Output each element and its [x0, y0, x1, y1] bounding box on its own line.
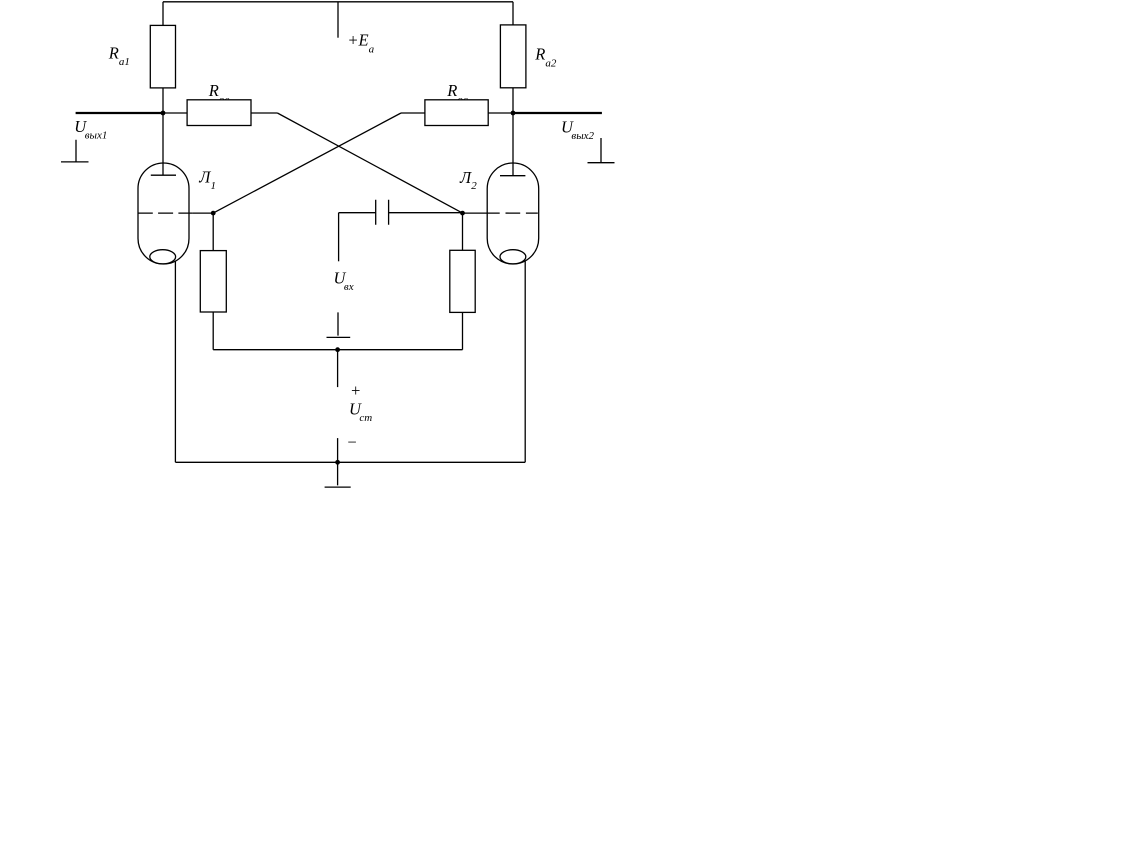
node B	[511, 111, 516, 116]
svg-text:+: +	[350, 381, 361, 400]
wire bottom rail	[175, 461, 525, 463]
resistor Rg2	[450, 250, 475, 312]
node A	[161, 111, 166, 116]
wire Roc2 stub	[401, 112, 425, 114]
grid L1 (dashed)	[138, 212, 193, 214]
grid L2 (dashed)	[506, 212, 538, 214]
wire +Ea stub	[337, 2, 339, 38]
wire Ra2 to anode of L2	[512, 88, 514, 176]
resistor Ra2	[500, 25, 526, 88]
node G2	[460, 211, 465, 216]
anode plate L1	[151, 174, 176, 176]
anode plate L2	[500, 175, 525, 177]
capacitor C1	[376, 200, 389, 225]
wire capacitor to node G2	[389, 212, 463, 214]
wire grid L1 to node G1	[193, 212, 214, 214]
wire Roc2 diagonal to grid of L1	[213, 113, 401, 213]
cathode L2	[500, 250, 526, 264]
wire rail to Ra1	[162, 2, 164, 26]
terminal Uvh bottom	[327, 312, 351, 337]
node G1	[211, 211, 216, 216]
wire output 1 (thick)	[76, 112, 163, 114]
wire Roc2 to node B	[488, 112, 513, 114]
wire Roc1 stub	[251, 112, 277, 114]
ground output 2	[588, 138, 615, 163]
wire node G2 to Rg2	[462, 213, 464, 250]
resistor Roc1	[187, 100, 251, 126]
wire Rg2 to cathode rail	[462, 312, 464, 349]
resistor Rg1	[200, 251, 226, 312]
resistor Ra1	[150, 25, 175, 88]
wire node G1 to Rg1	[212, 213, 214, 251]
wire cathode L2 down	[524, 261, 526, 462]
wire Uvh source top lead	[338, 213, 340, 262]
wire node A to Roc1	[163, 112, 187, 114]
node K	[335, 347, 340, 352]
wire Uvh to capacitor	[339, 212, 376, 214]
wire cathode rail	[213, 349, 462, 351]
wire Ust minus to bottom rail	[337, 438, 339, 462]
wire node G2 to grid L2	[463, 212, 500, 214]
tube L1 envelope	[138, 163, 189, 264]
ground bottom	[325, 462, 351, 487]
wire Ra1 to anode of L1	[162, 88, 164, 175]
wire top supply rail	[163, 1, 513, 3]
tube L2 envelope	[487, 163, 539, 264]
cathode L1	[150, 250, 176, 264]
node bottom	[335, 460, 340, 465]
wire Rg1 to cathode rail	[212, 312, 214, 350]
resistor Roc2	[425, 100, 488, 126]
wire Roc1 diagonal to grid of L2	[277, 113, 462, 213]
ground output 1	[61, 140, 89, 162]
wire cathode L1 down	[174, 261, 176, 462]
wire node K to Ust plus	[337, 350, 339, 387]
wire output 2 (thick)	[513, 112, 602, 114]
svg-text:−: −	[346, 432, 357, 451]
wire rail to Ra2	[512, 2, 514, 25]
